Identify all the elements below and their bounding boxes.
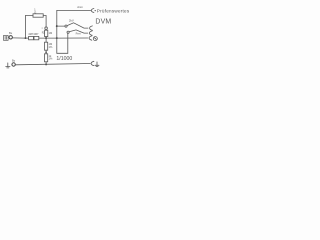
plug contact K3 (89, 31, 92, 35)
wire R2 to rail (45, 37, 47, 39)
plug contact K4 (89, 36, 92, 40)
input socket Bu2 (12, 59, 16, 67)
svg-text:Anm: Anm (77, 5, 83, 9)
node R3-R4 tap (45, 51, 47, 53)
node D (45, 63, 47, 65)
resistor R2 (42, 30, 52, 36)
plug contact K5 (91, 61, 94, 65)
svg-text:1%: 1% (49, 45, 53, 49)
wire rail right to contact K4 (57, 37, 88, 39)
socket Bu3 (45, 27, 48, 30)
terminal Tplus (93, 37, 97, 41)
resistor R1 (33, 8, 43, 18)
switch pivot S1b (67, 31, 69, 33)
wire rail mid segment (39, 37, 46, 39)
plug contact K2 (90, 26, 93, 30)
node A (25, 37, 27, 39)
switch arm S1b lead (69, 30, 88, 33)
switch arm S1a lead (67, 23, 88, 28)
resistor R4 (45, 54, 53, 62)
wire rail left segment (26, 37, 29, 39)
wire node E to pivot S1a (57, 25, 65, 27)
plug tip dot (95, 10, 96, 11)
wire node B down to R3 (45, 38, 47, 42)
wire R1 right down to socket (43, 16, 46, 27)
input socket Bu1 (9, 31, 13, 39)
svg-text:1%: 1% (49, 57, 53, 61)
ground left (6, 63, 10, 68)
bottom rail wire (16, 64, 91, 65)
input plug P1 (4, 36, 9, 41)
svg-text:G: G (34, 10, 36, 14)
bus wire top line and U detour (57, 10, 91, 53)
wire R4 to node D (45, 62, 47, 65)
svg-text:1M: 1M (49, 31, 53, 35)
ground right (95, 62, 99, 67)
wire rail to node C (46, 37, 57, 39)
plug contact K1 (91, 9, 94, 13)
svg-text:Prüfenswertes: Prüfenswertes (97, 9, 130, 14)
node E (56, 25, 58, 27)
svg-text:2kV: 2kV (69, 18, 74, 22)
node C (56, 37, 58, 39)
svg-text:Bu: Bu (9, 31, 13, 35)
node B (45, 37, 47, 39)
svg-text:Bu: Bu (12, 59, 16, 63)
svg-text:4M7: 4M7 (33, 32, 39, 36)
wire R3 to R4 (45, 50, 47, 54)
resistor R5a (28, 32, 34, 40)
resistor R3 (45, 42, 53, 50)
svg-text:Frei: Frei (76, 31, 81, 35)
wire input to node A (13, 37, 26, 39)
svg-text:DVM: DVM (95, 19, 111, 26)
svg-text:a: a (42, 28, 44, 30)
resistor R5b (33, 32, 39, 40)
svg-text:1/1000: 1/1000 (56, 56, 72, 62)
switch pivot S1a (65, 25, 67, 27)
wire node A up to R1 (25, 16, 33, 39)
